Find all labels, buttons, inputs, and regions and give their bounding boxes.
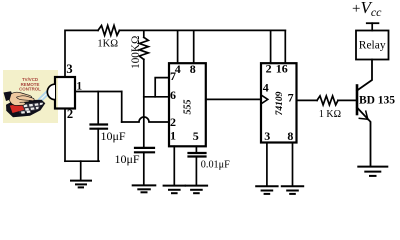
wire: Vcc to relay	[371, 23, 373, 30]
svg-text:555: 555	[183, 100, 194, 115]
IR receiver module box	[55, 77, 75, 109]
ground (555 pin1)	[164, 185, 185, 187]
svg-text:16: 16	[276, 62, 288, 76]
svg-text:5: 5	[193, 129, 199, 143]
wire: 74109 pin2 to rail	[270, 30, 272, 63]
wire: bottom run to C1	[65, 160, 99, 162]
emitter arrowhead	[359, 111, 368, 119]
capacitor C3 0.01uF plates	[189, 152, 206, 154]
svg-text:100KΩ: 100KΩ	[130, 36, 142, 69]
wire: 555 pin4 to rail	[177, 30, 179, 63]
finger lines	[20, 99, 28, 103]
capacitor C1 lower lead	[97, 129, 99, 162]
wire: receiver pin1 to corner	[75, 91, 122, 93]
svg-text:2: 2	[170, 115, 176, 129]
remote control picture	[3, 70, 58, 123]
svg-text:Relay: Relay	[359, 40, 386, 52]
op IC U1 555 box	[169, 63, 206, 146]
svg-text:1 KΩ: 1 KΩ	[319, 109, 341, 120]
hand sleeve	[4, 91, 15, 101]
wire: 74109 pin8 to ground	[292, 143, 294, 187]
wire: 100K bottom down to C2	[143, 59, 145, 147]
svg-text:8: 8	[190, 62, 196, 76]
wire: receiver pin2 down	[64, 109, 66, 162]
ground (emitter)	[358, 166, 387, 168]
picture background	[3, 70, 58, 123]
wire: to 555 pin2 with hop	[122, 117, 169, 122]
wire: 74109 pin16 to rail	[284, 30, 286, 63]
svg-text:2: 2	[67, 107, 73, 121]
IR beam	[38, 87, 52, 101]
supply terminal tick	[367, 22, 379, 24]
capacitor C1 plates	[91, 123, 108, 125]
capacitor C3 lower lead	[195, 157, 197, 186]
svg-text:3: 3	[264, 129, 270, 143]
svg-text:8: 8	[287, 129, 293, 143]
wire: 555 pin7 stub	[155, 78, 169, 97]
wire: top supply rail left segment	[65, 30, 98, 77]
wire: 74109 pin7 output	[297, 99, 318, 101]
resistor 100K lead from rail	[143, 30, 145, 37]
red button	[10, 103, 24, 113]
capacitor C2 10uF plates	[135, 147, 154, 149]
svg-text:4: 4	[263, 80, 269, 94]
svg-text:CONTROL: CONTROL	[19, 86, 41, 91]
svg-text:6: 6	[170, 88, 176, 102]
svg-text:7: 7	[288, 90, 294, 104]
svg-text:BD 135: BD 135	[359, 94, 395, 106]
svg-text:10μF: 10μF	[101, 129, 126, 143]
svg-text:2: 2	[266, 62, 272, 76]
transistor Q1 base bar	[356, 86, 359, 115]
resistor 1K (top)	[98, 26, 119, 36]
transistor Q1 collector	[357, 60, 372, 91]
wire: top supply rail right segment	[119, 29, 285, 31]
svg-text:10μF: 10μF	[115, 152, 140, 166]
svg-text:1KΩ: 1KΩ	[97, 39, 118, 50]
transistor Q1 emitter	[357, 108, 371, 167]
resistor 1K (base)	[317, 96, 338, 105]
svg-text:74109: 74109	[275, 91, 285, 115]
resistor 100K zigzag	[139, 37, 148, 59]
wire: ground stem	[80, 161, 82, 180]
key dots	[21, 103, 43, 114]
wire: to transistor base	[338, 99, 357, 101]
wire: 555 pin8 to rail	[193, 30, 195, 63]
hand	[9, 92, 31, 105]
capacitor C1 10uF lead	[97, 92, 99, 125]
ground (74109 pin3)	[256, 185, 277, 187]
svg-text:7: 7	[170, 69, 176, 83]
remote body	[6, 100, 45, 117]
relay RL1 box	[356, 31, 389, 60]
capacitor C2 lower lead	[143, 152, 145, 185]
svg-text:0.01μF: 0.01μF	[201, 160, 230, 171]
wire: 555 pin6 line	[144, 96, 169, 98]
thumb	[17, 96, 35, 101]
wire: 555 pin5 down	[195, 146, 197, 152]
wire: 74109 pin3 to ground	[266, 143, 268, 187]
wire: 555 pin3 output	[206, 98, 261, 100]
svg-text:3: 3	[66, 62, 72, 76]
ground (C2)	[133, 184, 156, 186]
IR receiver dome	[47, 84, 55, 99]
wire: 555 pin1 to ground	[173, 146, 175, 185]
wire: corner down	[121, 92, 123, 123]
svg-text:1: 1	[170, 129, 176, 143]
picture caption TV/VCD REMOTE CONTROL	[19, 77, 41, 91]
ground (receiver)	[71, 180, 91, 182]
ground (C3)	[186, 185, 207, 187]
clock arrow into 74109 pin4	[261, 95, 268, 104]
IC U2 74109 box	[261, 63, 297, 142]
remote keypad face	[18, 102, 43, 113]
ground (74109 pin8)	[282, 185, 303, 187]
